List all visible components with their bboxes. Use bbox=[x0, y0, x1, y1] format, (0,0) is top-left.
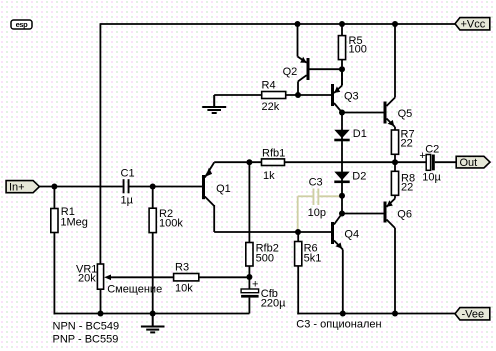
In+ input tag bbox=[6, 181, 39, 194]
transistor Q3 (PNP) bbox=[333, 69, 359, 112]
svg-text:Rfb1: Rfb1 bbox=[262, 148, 285, 160]
wire left bus Vcc to VR1 top bbox=[99, 23, 101, 264]
node Q6 collector / -Vee rail bbox=[392, 311, 398, 317]
diode D1 bbox=[334, 128, 367, 140]
svg-text:Q3: Q3 bbox=[344, 90, 359, 102]
capacitor C2 (10µ) bbox=[419, 143, 456, 183]
svg-text:PNP - BC559: PNP - BC559 bbox=[53, 334, 119, 346]
wire D string vertical bbox=[341, 113, 343, 214]
capacitor C3 (optional, greyed) bbox=[298, 177, 342, 233]
diode D2 bbox=[334, 171, 366, 183]
svg-text:C3: C3 bbox=[309, 177, 323, 189]
wire Q1 emitter row (feedback node) bbox=[214, 161, 261, 163]
svg-text:R3: R3 bbox=[175, 262, 189, 274]
svg-text:esp: esp bbox=[16, 20, 29, 29]
svg-text:5k1: 5k1 bbox=[304, 253, 322, 265]
node Q2 collector / Q3 base bbox=[295, 92, 301, 98]
resistor R8 bbox=[391, 162, 415, 198]
svg-text:NPN - BC549: NPN - BC549 bbox=[53, 321, 120, 333]
resistor R7 bbox=[391, 128, 414, 162]
node Q4 collector / Q6 base bbox=[339, 211, 345, 217]
node R7/R8/C2 output junction bbox=[392, 159, 398, 165]
svg-text:22: 22 bbox=[401, 137, 413, 149]
svg-text:220µ: 220µ bbox=[261, 298, 286, 310]
svg-text:20k: 20k bbox=[78, 273, 96, 285]
node Q3 collector / Q5 base / D1 top bbox=[339, 110, 345, 116]
resistor R3 bbox=[174, 262, 250, 295]
wire ground rail (bottom left) bbox=[54, 313, 250, 315]
node Q2 emitter / Vcc rail bbox=[295, 21, 301, 27]
-Vee power tag bbox=[455, 308, 490, 321]
svg-text:C2: C2 bbox=[425, 143, 439, 155]
resistor Rfb2 bbox=[246, 162, 279, 277]
transistor Q6 (PNP) bbox=[385, 199, 412, 314]
Out output tag bbox=[456, 156, 490, 169]
ground symbol (top, R4 left) bbox=[202, 95, 226, 113]
esp logo bbox=[11, 20, 32, 29]
wire In+ to C1 bbox=[39, 186, 123, 188]
node R6 top junction bbox=[295, 229, 301, 235]
svg-text:1µ: 1µ bbox=[121, 195, 134, 207]
+Vcc power tag bbox=[455, 18, 490, 31]
wire -Vee rail (bottom right) bbox=[297, 313, 456, 315]
wire Q1 collector row to Q4 base bbox=[214, 231, 331, 233]
resistor R4 bbox=[214, 80, 331, 114]
node In+/R1 junction bbox=[51, 184, 57, 190]
node VR1/ground rail junction bbox=[98, 311, 104, 317]
svg-text:C3 - опционален: C3 - опционален bbox=[296, 319, 381, 331]
svg-text:100: 100 bbox=[349, 44, 367, 56]
transistor Q4 (NPN) bbox=[333, 214, 360, 314]
svg-text:Смещение: Смещение bbox=[107, 283, 162, 295]
node D2 cathode / C3 bbox=[339, 193, 345, 199]
svg-text:1k: 1k bbox=[263, 170, 275, 182]
node Q5 collector / Vcc rail bbox=[392, 21, 398, 27]
resistor R6 bbox=[295, 232, 322, 314]
svg-text:+: + bbox=[252, 278, 258, 290]
svg-text:In+: In+ bbox=[9, 181, 25, 193]
resistor R5 bbox=[338, 24, 366, 86]
transistor Q1 (PNP) bbox=[204, 162, 231, 232]
node Rfb2/R3/Cfb junction bbox=[246, 274, 252, 280]
svg-text:Q6: Q6 bbox=[397, 208, 412, 220]
svg-text:Out: Out bbox=[460, 157, 478, 169]
svg-text:100k: 100k bbox=[159, 218, 183, 230]
transistor Q5 (NPN) bbox=[385, 24, 412, 130]
node R5 bottom / Q2 base / Q3 emitter bbox=[339, 66, 345, 72]
svg-text:22k: 22k bbox=[262, 101, 280, 113]
capacitor Cfb (220µ) bbox=[241, 277, 286, 314]
svg-text:D1: D1 bbox=[353, 128, 367, 140]
svg-text:Q5: Q5 bbox=[398, 108, 413, 120]
svg-text:10k: 10k bbox=[175, 283, 193, 295]
svg-text:10µ: 10µ bbox=[422, 171, 441, 183]
svg-text:Q2: Q2 bbox=[283, 66, 298, 78]
resistor Rfb1 bbox=[262, 148, 427, 183]
svg-text:C1: C1 bbox=[121, 168, 135, 180]
svg-text:10p: 10p bbox=[308, 207, 326, 219]
ground symbol (bottom) bbox=[141, 314, 165, 333]
node Q4 emitter / -Vee rail bbox=[340, 311, 346, 317]
node C1/R2 junction bbox=[150, 184, 156, 190]
wire C1 to Q1 base bbox=[129, 186, 202, 188]
wire +Vcc top rail bbox=[100, 23, 456, 25]
transistor Q2 (PNP, mirrored) bbox=[283, 24, 342, 95]
svg-text:R4: R4 bbox=[262, 80, 276, 92]
resistor R2 bbox=[149, 187, 183, 314]
wire Q3 collector to Q5 base bbox=[342, 112, 384, 114]
node R5 top / Vcc rail bbox=[339, 21, 345, 27]
potentiometer VR1 bbox=[76, 264, 174, 314]
capacitor C1 bbox=[121, 168, 135, 207]
svg-text:500: 500 bbox=[256, 253, 274, 265]
wire to Q6 base bbox=[342, 213, 384, 215]
svg-text:1Meg: 1Meg bbox=[60, 217, 88, 229]
svg-text:-Vee: -Vee bbox=[462, 308, 485, 320]
svg-text:Q4: Q4 bbox=[344, 228, 359, 240]
svg-text:Q1: Q1 bbox=[216, 183, 231, 195]
node Rfb2 top junction bbox=[246, 159, 252, 165]
svg-text:22: 22 bbox=[401, 182, 413, 194]
svg-text:D2: D2 bbox=[352, 171, 366, 183]
svg-text:+Vcc: +Vcc bbox=[461, 18, 486, 30]
node R2/ground junction bbox=[150, 311, 156, 317]
resistor R1 bbox=[51, 187, 88, 315]
